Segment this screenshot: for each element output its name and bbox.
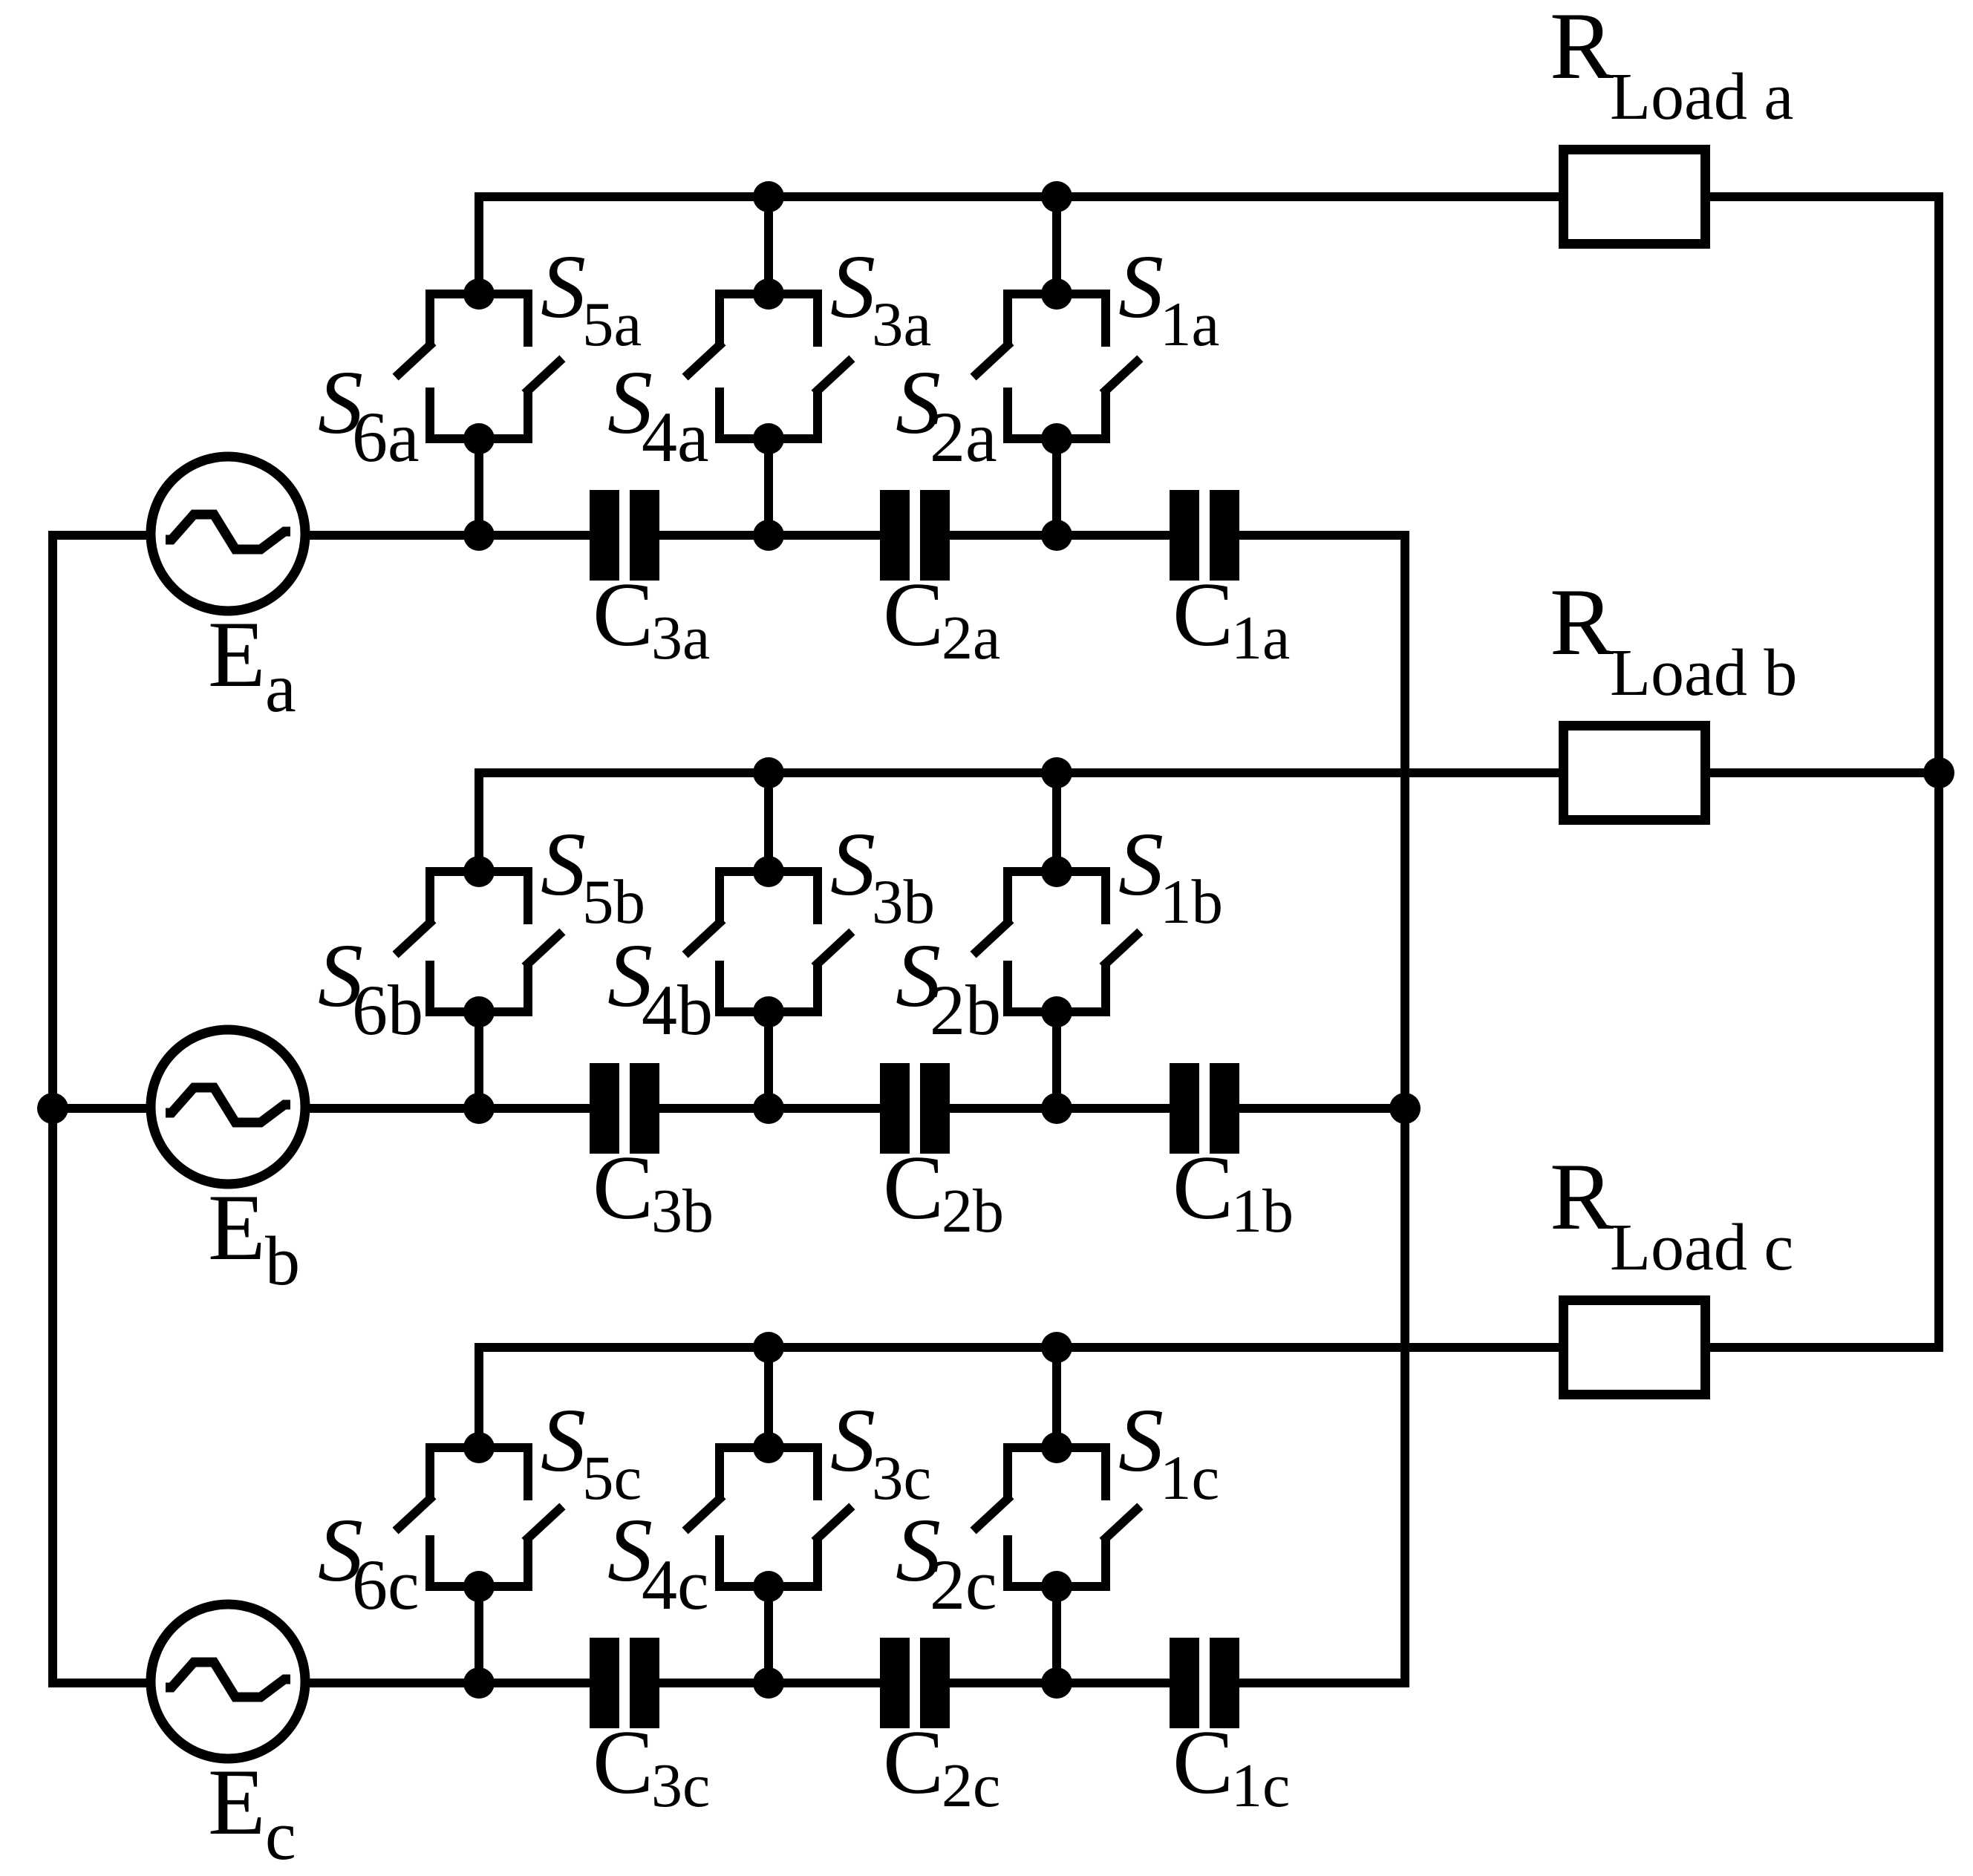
capacitor C2b (880, 1063, 910, 1154)
svg-text:2a: 2a (942, 604, 1000, 673)
wire bus stub column 2 (764, 1347, 773, 1448)
svg-text:C: C (1173, 1711, 1233, 1813)
node main line 1035 a (753, 520, 784, 551)
node S top 1035 c (753, 1432, 784, 1463)
svg-text:6b: 6b (352, 970, 423, 1050)
node S bottom 1035 a (753, 423, 784, 454)
switch pair S5a / S6a frame (430, 294, 528, 347)
svg-text:1c: 1c (1160, 1443, 1219, 1513)
svg-text:5a: 5a (582, 290, 642, 359)
svg-text:S: S (541, 237, 586, 337)
node S top 1423 a (1041, 278, 1072, 310)
svg-text:4c: 4c (642, 1545, 709, 1624)
resistor R Load b (1564, 726, 1706, 820)
node bus column 2 (753, 757, 784, 788)
wire R Load b right lead (1710, 768, 1939, 777)
ac source Ec (151, 1604, 305, 1759)
wire Eb right lead (308, 1104, 479, 1113)
node bus column 3 (1041, 1332, 1072, 1363)
switch S1b blade (1106, 935, 1137, 964)
node S top 1423 b (1041, 856, 1072, 887)
wire module stub down 645 a (475, 439, 483, 535)
switch S5a blade (528, 362, 559, 390)
node main line 1423 a (1041, 520, 1072, 551)
switch S1a blade (1106, 362, 1137, 390)
wire phase c main line (479, 1679, 619, 1687)
svg-text:a: a (265, 650, 296, 727)
capacitor C1a (1170, 490, 1199, 581)
svg-text:C: C (883, 563, 944, 665)
switch pair S3c / S4c frame (720, 1448, 818, 1500)
capacitor C3c (590, 1638, 619, 1728)
svg-text:E: E (208, 1176, 266, 1280)
svg-text:S: S (541, 814, 586, 915)
switch pair S3a / S4a frame (720, 294, 818, 347)
ac source Ea (151, 457, 305, 611)
wire module stub down 645 c (475, 1586, 483, 1683)
switch S3a blade (818, 362, 849, 390)
switch pair S1c / S2c frame (1008, 1448, 1106, 1500)
node S bottom 645 b (463, 996, 495, 1027)
svg-text:Load b: Load b (1610, 636, 1797, 710)
svg-text:C: C (883, 1711, 944, 1813)
svg-text:1b: 1b (1231, 1177, 1294, 1246)
wire phase b chain end (1210, 1104, 1405, 1113)
node neutral / phase b junction (1389, 1093, 1421, 1124)
svg-text:E: E (208, 603, 266, 707)
svg-text:S: S (830, 814, 875, 915)
svg-text:S: S (1118, 814, 1164, 915)
switch S6c blade (399, 1499, 430, 1528)
node S bottom 645 c (463, 1571, 495, 1602)
svg-text:2b: 2b (942, 1177, 1004, 1246)
svg-text:E: E (208, 1751, 266, 1854)
svg-text:3a: 3a (651, 604, 710, 673)
switch S1c blade (1106, 1509, 1137, 1538)
capacitor C3b (590, 1063, 619, 1154)
svg-text:S: S (830, 237, 875, 337)
wire phase c top bus (479, 1347, 1559, 1448)
svg-text:6c: 6c (352, 1545, 420, 1624)
svg-text:2a: 2a (930, 397, 997, 477)
ac source Eb (151, 1030, 305, 1184)
wire phase b main line (479, 1104, 619, 1113)
svg-text:b: b (265, 1223, 300, 1300)
switch S4a blade (688, 345, 720, 374)
node main line 645 b (463, 1093, 495, 1124)
switch S2c blade (976, 1499, 1008, 1528)
switch S6a blade (399, 345, 430, 374)
switch S5b blade (528, 935, 559, 964)
wire bus stub column 2 (764, 197, 773, 294)
wire bus stub column 2 (764, 773, 773, 872)
node S top 645 b (463, 856, 495, 887)
wire module stub down 1035 a (764, 439, 773, 535)
svg-text:3b: 3b (651, 1177, 714, 1246)
wire Ec right lead (308, 1679, 479, 1687)
node S bottom 645 a (463, 423, 495, 454)
svg-text:3a: 3a (872, 290, 931, 359)
wire bus stub column 3 (1052, 773, 1061, 872)
node S bottom 1423 c (1041, 1571, 1072, 1602)
svg-text:C: C (1173, 1137, 1233, 1238)
svg-text:S: S (1118, 1390, 1164, 1491)
switch S2a blade (976, 345, 1008, 374)
switch S3c blade (818, 1509, 849, 1538)
switch pair S5c / S6c frame (430, 1448, 528, 1500)
node main line 1423 b (1041, 1093, 1072, 1124)
svg-text:2c: 2c (930, 1545, 997, 1624)
node main line 645 a (463, 520, 495, 551)
svg-text:C: C (1173, 563, 1233, 665)
svg-text:1a: 1a (1160, 290, 1219, 359)
svg-text:6a: 6a (352, 397, 420, 477)
svg-text:C: C (593, 1137, 653, 1238)
wire module stub down 1423 a (1052, 439, 1061, 535)
node S bottom 1423 a (1041, 423, 1072, 454)
wire phase b top bus (479, 773, 1559, 872)
svg-text:2c: 2c (942, 1751, 1000, 1820)
switch pair S1b / S2b frame (1008, 872, 1106, 924)
svg-text:S: S (830, 1390, 875, 1491)
switch S5c blade (528, 1509, 559, 1538)
svg-text:R: R (1550, 1143, 1614, 1249)
node main line 645 c (463, 1667, 495, 1699)
svg-text:R: R (1550, 0, 1614, 99)
switch pair S1a / S2a frame (1008, 294, 1106, 347)
svg-text:3c: 3c (651, 1751, 710, 1820)
capacitor C1c (1170, 1638, 1199, 1728)
node S bottom 1035 c (753, 1571, 784, 1602)
svg-text:S: S (541, 1390, 586, 1491)
switch pair S3b / S4b frame (720, 872, 818, 924)
node bus column 3 (1041, 181, 1072, 212)
svg-text:4a: 4a (642, 397, 709, 477)
wire phase a top bus (479, 197, 1559, 294)
node main line 1035 c (753, 1667, 784, 1699)
wire module stub down 1035 c (764, 1586, 773, 1683)
capacitor C2a (880, 490, 910, 581)
svg-text:Load a: Load a (1610, 60, 1793, 134)
wire module stub down 1423 c (1052, 1586, 1061, 1683)
capacitor C3a (590, 490, 619, 581)
node S bottom 1035 b (753, 996, 784, 1027)
node S top 1035 b (753, 856, 784, 887)
wire module stub down 1423 b (1052, 1012, 1061, 1108)
svg-text:S: S (1118, 237, 1164, 337)
wire phase a main line (479, 531, 619, 540)
wire right rail (load common) (1710, 197, 1939, 1347)
svg-text:c: c (265, 1797, 296, 1875)
node right rail / load b junction (1923, 757, 1954, 788)
svg-text:C: C (883, 1137, 944, 1238)
node S top 1035 a (753, 278, 784, 310)
resistor R Load a (1564, 150, 1706, 244)
svg-text:4b: 4b (642, 970, 713, 1050)
capacitor C1b (1170, 1063, 1199, 1154)
node bus column 3 (1041, 757, 1072, 788)
svg-text:C: C (593, 1711, 653, 1813)
wire module stub down 645 b (475, 1012, 483, 1108)
svg-text:2b: 2b (930, 970, 1001, 1050)
switch S6b blade (399, 923, 430, 952)
wire Eb left lead (53, 1104, 148, 1113)
node S top 645 a (463, 278, 495, 310)
wire neutral rail (capacitor chain ends) (1210, 535, 1405, 1683)
svg-text:Load c: Load c (1610, 1211, 1793, 1284)
node main line 1423 c (1041, 1667, 1072, 1699)
wire bus stub column 3 (1052, 1347, 1061, 1448)
switch S3b blade (818, 935, 849, 964)
node bus column 2 (753, 181, 784, 212)
node S bottom 1423 b (1041, 996, 1072, 1027)
node S top 645 c (463, 1432, 495, 1463)
svg-text:1a: 1a (1231, 604, 1290, 673)
wire Ea right lead (308, 531, 479, 540)
wire module stub down 1035 b (764, 1012, 773, 1108)
switch S2b blade (976, 923, 1008, 952)
svg-text:1c: 1c (1231, 1751, 1290, 1820)
svg-text:C: C (593, 563, 653, 665)
resistor R Load c (1564, 1301, 1706, 1395)
switch pair S5b / S6b frame (430, 872, 528, 924)
node left rail / phase b junction (37, 1093, 68, 1124)
switch S4b blade (688, 923, 720, 952)
svg-text:1b: 1b (1160, 867, 1223, 937)
wire left rail (source common) (53, 535, 148, 1683)
switch S4c blade (688, 1499, 720, 1528)
node main line 1035 b (753, 1093, 784, 1124)
node S top 1423 c (1041, 1432, 1072, 1463)
capacitor C2c (880, 1638, 910, 1728)
wire bus stub column 3 (1052, 197, 1061, 294)
node bus column 2 (753, 1332, 784, 1363)
svg-text:R: R (1550, 569, 1614, 675)
